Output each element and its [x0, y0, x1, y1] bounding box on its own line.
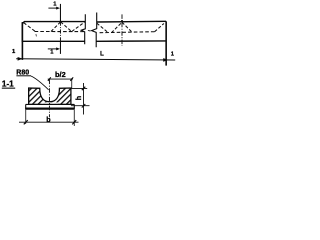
R80 leader line — [31, 76, 49, 90]
svg-text:1: 1 — [171, 52, 175, 58]
hidden diagonal from right break corner — [97, 23, 108, 32]
h tick top — [82, 87, 86, 91]
break line right half — [92, 13, 97, 48]
hidden peak right half, left leg — [111, 22, 122, 33]
hidden midline dashed, right half — [100, 32, 156, 33]
b right extension line — [73, 110, 75, 126]
b tick left — [24, 120, 28, 124]
dimension L left arrowhead — [18, 57, 23, 61]
section centre line dash-dot — [48, 80, 50, 118]
beam right edge extended as dimension extension line — [165, 21, 167, 65]
section cut line 1-1, through beam dash-dot — [59, 22, 61, 42]
svg-text:h: h — [76, 96, 83, 100]
break line left half — [81, 14, 85, 44]
hidden midline dashed, left half — [35, 31, 85, 33]
hidden diagonal to left break corner — [72, 22, 85, 31]
b/2 tick right — [70, 77, 73, 81]
svg-text:1-1: 1-1 — [2, 80, 14, 89]
apex junction left — [60, 21, 62, 23]
svg-text:b/2: b/2 — [55, 70, 66, 79]
beam top view: right half outline — [96, 21, 166, 41]
section cut line 1-1, bottom segment — [59, 41, 61, 54]
svg-text:1: 1 — [50, 50, 54, 56]
dimension line b/2 — [48, 78, 73, 80]
section body with groove, hatched — [29, 88, 71, 104]
dimension L right arrowhead — [163, 58, 168, 62]
b/2 right extension line — [71, 78, 73, 88]
beam top view: left half outline — [22, 22, 85, 42]
hidden peak left half, left leg — [51, 22, 61, 32]
b tick right — [72, 120, 76, 124]
h top extension line — [71, 87, 87, 89]
svg-text:b: b — [46, 115, 51, 124]
b/2 tick left — [48, 77, 51, 81]
white sliver under groove — [41, 102, 58, 103]
bottom pad heavy lower edge — [25, 107, 74, 109]
centre axis right half, dash-dot — [121, 14, 123, 46]
hidden diagonal to top-right corner — [155, 24, 164, 32]
small hidden dash below midline junction — [35, 34, 38, 36]
dimension line h — [83, 83, 85, 115]
h tick bottom — [82, 104, 86, 108]
b left extension line — [25, 110, 27, 124]
section arrow bottom — [48, 48, 57, 50]
hidden peak left half, right leg — [61, 22, 72, 32]
hidden diagonal from top-left corner — [24, 23, 36, 32]
svg-text:L: L — [100, 52, 104, 58]
section cut line 1-1, top segment — [59, 4, 61, 22]
hidden midline dash across break gap — [88, 29, 91, 32]
hidden peak right half, right leg — [122, 22, 133, 33]
section arrow top — [48, 7, 56, 9]
bottom pad plank — [26, 104, 75, 109]
beam left edge extended as dimension extension line — [21, 22, 23, 60]
svg-text:1: 1 — [12, 49, 16, 55]
apex junction right — [121, 20, 123, 22]
dimension line L — [16, 59, 175, 60]
R80 underline — [16, 75, 31, 76]
h bottom extension line — [71, 105, 90, 107]
section 1-1 title underline — [2, 88, 15, 89]
svg-text:1: 1 — [53, 1, 57, 7]
dimension line b — [19, 121, 79, 123]
